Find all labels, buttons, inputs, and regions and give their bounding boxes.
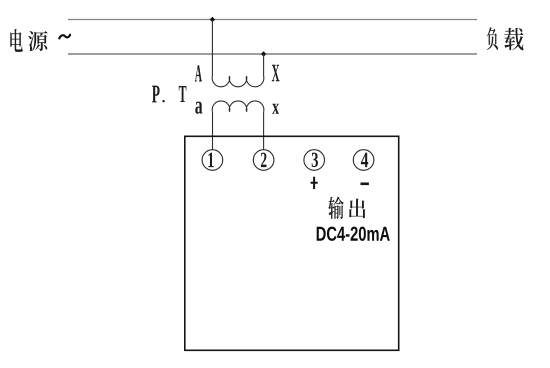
- label: transformer designator P.T: [152, 86, 186, 103]
- wire: phase line L2 (bottom): [68, 53, 477, 55]
- label: 输出 (output): [328, 196, 365, 219]
- label: secondary terminal x: [272, 104, 279, 114]
- wire: secondary x down to terminal 2: [263, 112, 265, 150]
- label: primary terminal X: [272, 65, 280, 81]
- node: junction on L1: [210, 17, 215, 22]
- terminal 1: [202, 150, 223, 171]
- terminal 4: [353, 150, 374, 171]
- transmitter box outline: [185, 136, 399, 350]
- label: DC4-20mA output range: [317, 227, 390, 241]
- wire: L2 junction down to PT primary terminal X: [263, 54, 265, 76]
- label: secondary terminal a: [195, 102, 202, 114]
- label: - polarity (terminal 4): [361, 183, 369, 186]
- transformer PT primary winding: [212, 76, 264, 87]
- node: junction on L2: [261, 51, 266, 56]
- terminal 3: [304, 150, 325, 171]
- label: ~ AC symbol: [59, 35, 70, 39]
- wire: phase line L1 (top): [68, 19, 477, 21]
- transformer PT secondary winding: [212, 101, 264, 112]
- label: primary terminal A: [195, 65, 202, 81]
- wire: secondary a down to terminal 1: [212, 112, 214, 150]
- label: 负载 (load): [487, 27, 524, 50]
- wire: L1 junction down to PT primary terminal A: [211, 20, 213, 77]
- label: 电源 (power source): [10, 29, 47, 52]
- label: + polarity (terminal 3): [311, 177, 318, 189]
- terminal 2: [253, 150, 274, 171]
